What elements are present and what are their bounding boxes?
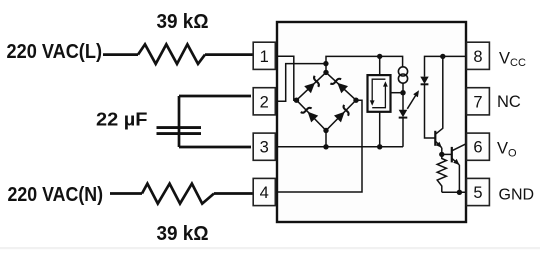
- pin 7: [467, 88, 490, 115]
- node bridge right: [353, 98, 358, 103]
- wire bridge diamond edges: [297, 72, 357, 130]
- svg-text:220 VAC(L): 220 VAC(L): [7, 41, 103, 63]
- diode D2 (bridge top-right): [330, 76, 348, 94]
- svg-text:5: 5: [473, 184, 482, 202]
- svg-text:GND: GND: [499, 186, 535, 203]
- wire R2 to pin4: [214, 192, 254, 195]
- pin 4: [253, 178, 275, 205]
- transistor Q2: [442, 153, 452, 155]
- node bridge top: [323, 70, 328, 75]
- resistor R1 39 kΩ: [138, 44, 205, 64]
- resistor R3 (emitter bias): [437, 154, 446, 192]
- wire current source to LED: [402, 83, 404, 110]
- node bridge bottom: [323, 128, 328, 133]
- pin 8: [467, 42, 490, 69]
- wire pin1 to bridge left node: [277, 56, 297, 100]
- LED D5: [399, 110, 408, 118]
- node A junction pin2/bridge top: [323, 61, 328, 66]
- diode D3 (bridge bottom-left): [301, 105, 319, 123]
- node Q1 collector rail junction: [440, 54, 445, 59]
- pin 1: [253, 42, 275, 69]
- svg-text:4: 4: [260, 184, 269, 202]
- wire R1 to pin1: [205, 53, 254, 56]
- node LED branch junction: [400, 90, 405, 95]
- current source I1: [398, 67, 407, 76]
- node bridge left: [294, 98, 299, 103]
- wire regulator bottom to pin3 rail: [379, 112, 381, 147]
- svg-text:7: 7: [473, 93, 482, 111]
- shunt regulator U2: [368, 75, 391, 112]
- node regulator/rail junction: [377, 54, 382, 59]
- wire bridge bottom to pin3 rail: [325, 131, 327, 147]
- svg-text:2: 2: [260, 93, 269, 111]
- svg-text:3: 3: [260, 139, 269, 157]
- wire VAC(L) to R1: [103, 53, 138, 56]
- svg-text:6: 6: [473, 139, 482, 157]
- svg-text:8: 8: [473, 48, 482, 66]
- resistor R2 39 kΩ: [142, 184, 214, 204]
- wire cap top to pin2: [179, 95, 251, 98]
- node regulator/pin3 rail junction: [377, 144, 382, 149]
- svg-text:NC: NC: [497, 93, 521, 111]
- svg-text:220 VAC(N): 220 VAC(N): [8, 184, 104, 206]
- wire pin2 up to node A: [277, 64, 326, 102]
- wire regulator right to LED branch: [391, 92, 404, 94]
- wire photodiode to Q1 base: [425, 84, 436, 138]
- op-amp U1 IC body: [277, 22, 466, 222]
- diode D1 (bridge top-left): [304, 76, 322, 94]
- svg-text:39 kΩ: 39 kΩ: [157, 223, 209, 245]
- wire GND rail to pin5: [442, 191, 466, 193]
- wire cap bottom to pin3: [179, 146, 251, 149]
- wire pin3 ground-return rail: [277, 146, 403, 148]
- svg-text:22 µF: 22 µF: [96, 109, 148, 130]
- capacitor C1 22 µF: [178, 96, 181, 147]
- node Q2 emitter / GND rail junction: [457, 190, 462, 195]
- svg-text:1: 1: [260, 48, 269, 66]
- wire bridge top to Vcc rail: [326, 56, 403, 72]
- pin 2: [253, 88, 275, 115]
- diode D4 (bridge bottom-right): [334, 105, 352, 123]
- wire Vcc rail (output side): [425, 56, 467, 76]
- wire pin4 to bridge right node: [277, 100, 362, 192]
- transistor Q1: [434, 131, 436, 146]
- wire LED cathode to pin3 rail: [402, 118, 404, 147]
- wire VAC(N) to R2: [110, 192, 142, 195]
- pin 5: [467, 178, 490, 205]
- wire regulator top to rail: [379, 56, 381, 75]
- node bridge bottom to rail junction: [323, 144, 328, 149]
- photodiode D6: [420, 77, 428, 84]
- pin 6: [467, 133, 490, 160]
- pin 3: [253, 133, 275, 160]
- light emission arrow: [407, 95, 416, 109]
- node Q1 emitter junction: [439, 152, 444, 157]
- svg-text:39 kΩ: 39 kΩ: [157, 11, 209, 33]
